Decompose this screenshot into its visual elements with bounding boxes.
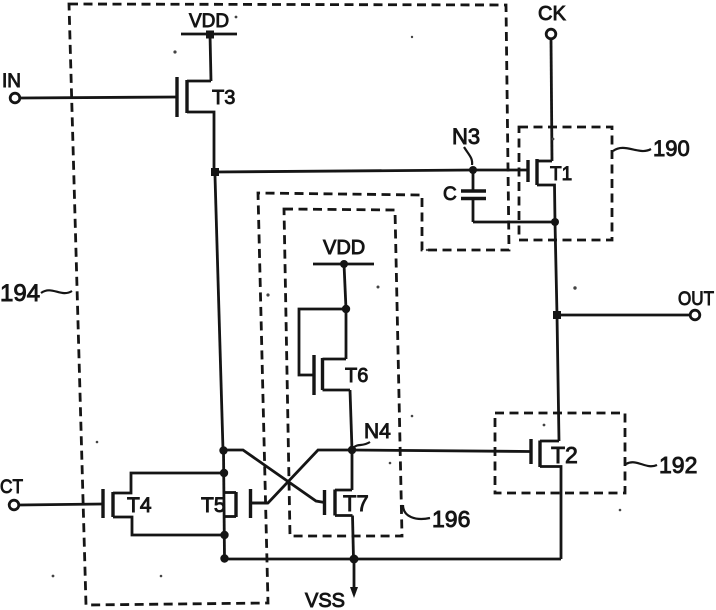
wire cross-couple diagonal B (N4 to T5 gate) bbox=[251, 450, 353, 503]
box 190 (dashed box around T1) bbox=[519, 127, 612, 240]
node dot VDD/T3 bbox=[206, 31, 214, 39]
svg-text:196: 196 bbox=[432, 506, 470, 532]
wire capacitor bottom to T1 source bbox=[473, 221, 555, 224]
box 194 (dashed boundary of input stage) bbox=[69, 4, 509, 605]
wire VDD down to T6 bbox=[344, 264, 346, 309]
transistor T4 bbox=[103, 473, 225, 535]
svg-text:194: 194 bbox=[0, 280, 40, 307]
transistor T1 bbox=[528, 159, 572, 222]
node dot T4/T5 bottom rail bbox=[220, 531, 228, 539]
node OUT junction bbox=[553, 311, 561, 319]
node dot T1 source junction bbox=[551, 218, 559, 226]
svg-text:OUT: OUT bbox=[678, 289, 714, 310]
node dot T6 gate tie bbox=[342, 305, 350, 313]
terminal CT bbox=[0, 477, 103, 510]
power VDD (middle, for T6) bbox=[313, 237, 374, 264]
svg-text:C: C bbox=[443, 184, 457, 205]
svg-text:T7: T7 bbox=[343, 491, 369, 516]
node N4 bbox=[348, 420, 391, 454]
wire T5 vertical (drain/source rail) bbox=[224, 450, 225, 559]
terminal IN bbox=[2, 71, 177, 103]
capacitor C bbox=[443, 170, 486, 222]
scan noise specks bbox=[52, 16, 622, 578]
svg-text:T2: T2 bbox=[551, 442, 578, 468]
transistor T3 bbox=[177, 77, 235, 172]
transistor T5 (mirrored, gate on right) bbox=[201, 489, 268, 518]
wire T3 junction to N3 and T1 gate bbox=[215, 170, 528, 172]
node dot T3 drain junction bbox=[211, 168, 219, 176]
wire T1 down through OUT node to T2 drain bbox=[555, 222, 559, 441]
box 192 (dashed box around T2) bbox=[495, 413, 625, 493]
svg-text:T4: T4 bbox=[127, 494, 152, 517]
svg-text:T1: T1 bbox=[550, 164, 572, 185]
label 194 bbox=[0, 280, 72, 307]
label 192 bbox=[626, 452, 697, 478]
svg-text:IN: IN bbox=[2, 71, 21, 92]
svg-text:192: 192 bbox=[659, 452, 697, 478]
svg-text:VDD: VDD bbox=[323, 237, 365, 259]
node dot left cross junction bbox=[219, 446, 227, 454]
power VDD (top, for T3) bbox=[181, 11, 237, 34]
wire cross-couple diagonal A (left node to T7 gate) bbox=[224, 450, 325, 503]
label 190 bbox=[613, 136, 690, 161]
transistor T2 bbox=[531, 439, 578, 559]
svg-text:CT: CT bbox=[0, 477, 23, 498]
svg-text:CK: CK bbox=[538, 3, 566, 25]
node N3 bbox=[452, 124, 480, 174]
svg-text:VDD: VDD bbox=[189, 11, 229, 32]
svg-text:190: 190 bbox=[653, 136, 690, 161]
transistor T6 (diode connected) bbox=[299, 309, 368, 450]
box 196 (dashed box around T6/T7 latch) bbox=[284, 209, 402, 536]
terminal OUT bbox=[561, 289, 714, 320]
svg-text:T6: T6 bbox=[345, 365, 368, 387]
wire N4 to T2 gate bbox=[352, 450, 530, 452]
svg-text:T5: T5 bbox=[201, 494, 226, 517]
svg-text:N4: N4 bbox=[364, 420, 391, 443]
svg-text:VSS: VSS bbox=[305, 590, 345, 610]
svg-text:N3: N3 bbox=[452, 124, 480, 149]
wire T3 junction down to T5 (long vertical) bbox=[215, 176, 223, 450]
label 196 bbox=[403, 505, 470, 532]
wire bottom rail (T5 to VSS to T2) bbox=[224, 558, 561, 561]
terminal CK bbox=[538, 3, 566, 161]
power VSS with arrow bbox=[305, 559, 358, 610]
wire VDD to T3 drain bbox=[210, 34, 211, 81]
node dot T4/T5 top rail bbox=[220, 469, 228, 477]
node dot VDD/T6 bbox=[340, 260, 348, 268]
node dot VSS junction bbox=[350, 555, 359, 564]
svg-text:T3: T3 bbox=[212, 87, 235, 109]
node dot bottom rail left bbox=[220, 554, 228, 562]
transistor T7 bbox=[325, 450, 369, 559]
